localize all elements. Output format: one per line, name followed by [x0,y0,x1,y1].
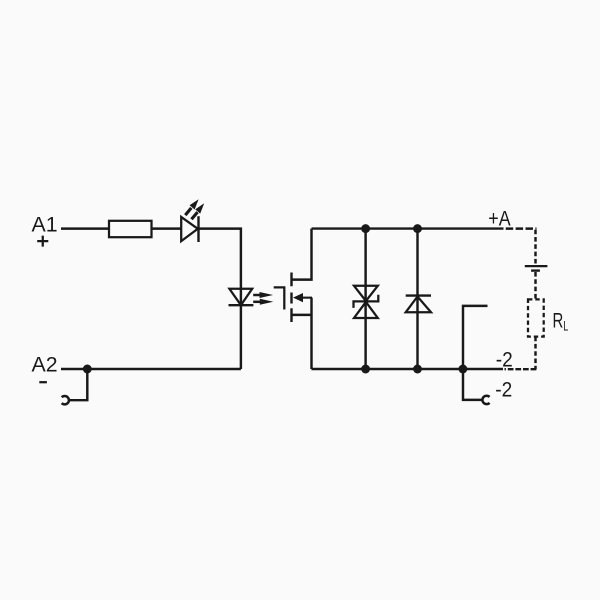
MOSFET Q1 gate [274,287,285,309]
wire output bottom rail [312,368,504,370]
wire LED to corner and down to photodiode [199,229,241,369]
node top diode [413,224,422,233]
diode D4 cathode bar [406,294,431,296]
dashed wire load to bottom [534,337,536,370]
MOSFET Q1 drain lead [292,229,312,280]
wire output top rail [312,227,504,229]
svg-text:A1: A1 [32,212,58,236]
MOSFET Q1 channel segments [290,273,292,323]
MOSFET Q1 body arrow [293,293,312,302]
clamp hook A2 [62,396,69,404]
TVS suppressor D3 upper triangle [354,286,378,301]
load resistor RL dashed box [528,299,544,336]
node bottom output [458,365,467,374]
MOSFET Q1 source lead [292,298,312,369]
node bottom TVS [361,365,370,374]
battery B1 long plate [525,265,548,267]
svg-text:L: L [563,318,568,334]
wire output bracket [463,306,488,369]
TVS suppressor D3 zener bar [354,295,379,308]
wire resistor to LED [152,227,182,229]
node bottom diode [413,365,422,374]
minus polarity mark [39,381,47,383]
resistor R1 [109,221,152,237]
LED D1 light emission arrows [184,199,204,220]
diode D4 triangle [406,297,431,313]
dashed wire battery to load [534,272,536,299]
wire A1 to resistor [61,227,109,229]
svg-text:R: R [553,310,564,333]
svg-text:A2: A2 [32,352,58,376]
TVS suppressor D3 lower triangle [354,302,378,318]
node top TVS [361,224,370,233]
svg-text:-2: -2 [495,378,512,401]
wire A2 rail [61,368,241,370]
optocoupler light arrows [253,292,273,305]
battery B1 short plate [531,269,540,271]
LED D1 cathode bar [197,216,199,242]
wire TVS branch [364,229,366,369]
wire output -2 stub [463,369,482,400]
photodiode D2 triangle [229,289,252,305]
plus polarity mark [37,236,48,247]
dashed wire bottom horizontal [505,368,537,370]
svg-text:+A: +A [488,207,511,231]
photodiode D2 cathode bar [229,304,254,306]
wire diode branch [416,229,418,369]
clamp hook -2 [482,396,489,404]
junction dot A2 [83,365,92,374]
LED D1 triangle [181,217,198,241]
wire A2 clamp stub [69,369,87,400]
dashed wire +A horizontal [506,227,537,229]
dashed wire battery vertical [534,230,536,265]
